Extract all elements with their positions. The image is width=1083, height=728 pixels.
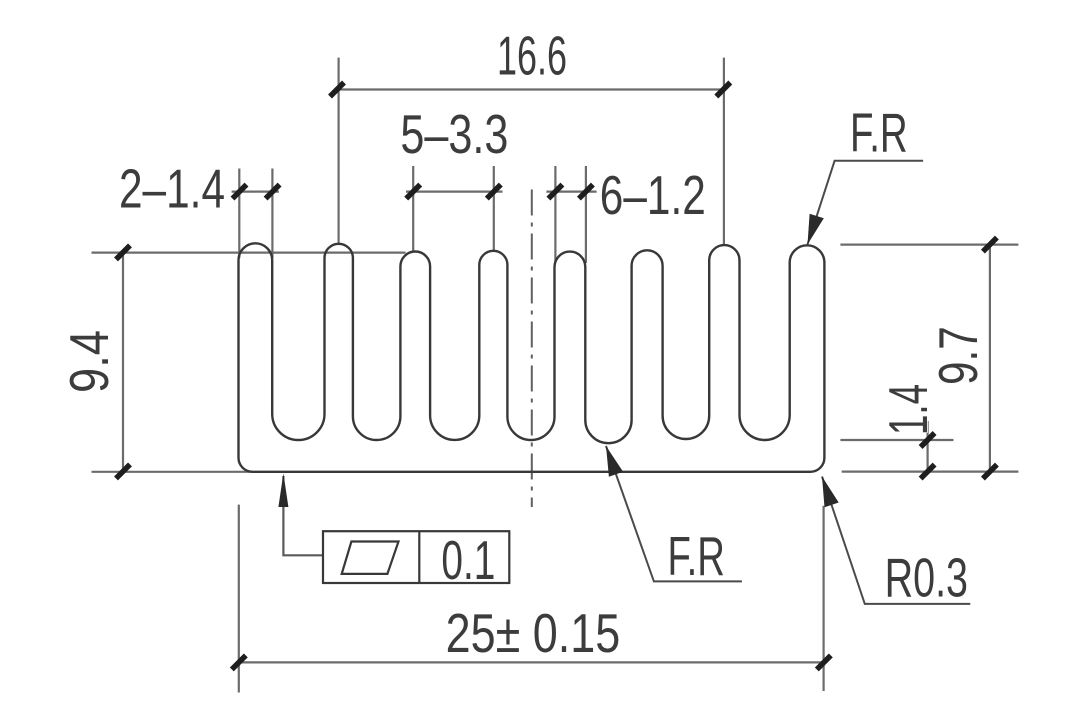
ext 5-3.3 left	[412, 166, 414, 251]
ext right top (9.7)	[840, 244, 1018, 246]
svg-text:6–1.2: 6–1.2	[600, 164, 706, 226]
ext 2-1.4 left	[238, 169, 240, 259]
tick 9.4 top	[116, 245, 130, 259]
svg-text:16.6: 16.6	[497, 25, 567, 87]
svg-text:9.4: 9.4	[58, 330, 120, 393]
ext 16.6 left	[338, 58, 340, 244]
ext 2-1.4 right	[271, 169, 273, 259]
svg-text:F.R: F.R	[850, 102, 908, 164]
svg-text:2–1.4: 2–1.4	[119, 158, 225, 220]
svg-text:0.1: 0.1	[441, 529, 495, 591]
heatsink profile outline	[239, 243, 825, 472]
ext right middle (1.4)	[840, 439, 953, 441]
tick 9.7 bottom	[983, 465, 997, 479]
dim line 9.7	[989, 245, 991, 472]
svg-text:5–3.3: 5–3.3	[400, 103, 508, 165]
tick 2-1.4 right	[266, 185, 280, 199]
tick 16.6 left	[330, 83, 344, 97]
svg-text:R0.3: R0.3	[885, 547, 968, 609]
dim line 1.4	[926, 421, 928, 472]
dim line 16.6	[334, 88, 726, 90]
ext 9.4 bottom	[92, 471, 254, 473]
tick 25 left	[232, 655, 246, 669]
dim line 6-1.2	[546, 191, 596, 193]
tick 16.6 right	[716, 83, 730, 97]
dim line 2-1.4	[232, 191, 279, 193]
dim line 25	[239, 661, 824, 663]
arrowhead F.R bottom	[606, 446, 623, 477]
svg-text:25± 0.15: 25± 0.15	[446, 602, 621, 664]
ext 25 left	[238, 505, 240, 693]
leader R0.3	[822, 477, 970, 604]
svg-text:1.4: 1.4	[877, 384, 939, 435]
dimension texts	[58, 25, 989, 665]
centerline (dash-dot)	[531, 190, 533, 508]
tick 6-1.2 left	[548, 185, 562, 199]
tick 1.4 top	[921, 433, 935, 447]
svg-text:9.7: 9.7	[927, 326, 989, 385]
arrowhead R0.3	[822, 477, 839, 508]
ext 5-3.3 right	[493, 166, 495, 250]
tick 9.7 top	[983, 238, 997, 252]
arrowhead flatness	[278, 473, 288, 507]
dim line 9.4	[122, 252, 124, 471]
oblique dimension ticks	[116, 83, 997, 670]
flatness symbol (parallelogram)	[342, 542, 399, 574]
tick 25 right	[817, 655, 831, 669]
tick 5-3.3 right	[487, 185, 501, 199]
tick 6-1.2 right	[579, 185, 593, 199]
ext 16.6 right	[723, 58, 725, 245]
leader flatness frame	[283, 476, 323, 555]
flatness feature control frame	[323, 531, 509, 583]
ext 6-1.2 right	[585, 166, 587, 263]
ext 9.4 top	[92, 252, 406, 254]
dim line 5-3.3	[406, 191, 503, 193]
tick 9.4 bottom	[116, 464, 130, 478]
svg-text:F.R: F.R	[668, 525, 725, 587]
ext right bottom	[842, 471, 1019, 473]
ext 6-1.2 left	[554, 166, 556, 263]
arrowhead F.R top	[808, 214, 824, 245]
leader F.R bottom	[606, 446, 742, 581]
tick 1.4 bottom	[921, 465, 935, 479]
extension/dimension aux lines	[92, 58, 1019, 693]
tick 2-1.4 left	[233, 185, 247, 199]
leader F.R top	[808, 161, 924, 245]
tick 5-3.3 left	[406, 185, 420, 199]
ext 25 right	[822, 506, 824, 691]
